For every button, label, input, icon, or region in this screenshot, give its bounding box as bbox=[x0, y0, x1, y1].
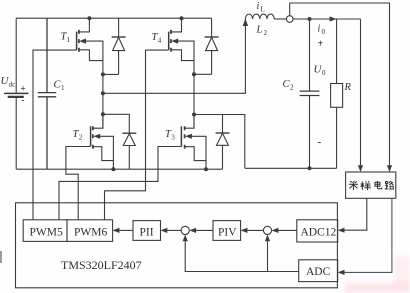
wire ADC12 to circle2 bbox=[278, 229, 297, 231]
svg-text:1: 1 bbox=[67, 36, 71, 44]
ADC box bbox=[299, 260, 338, 282]
wire L2 to sensor bbox=[274, 18, 286, 20]
scan artifact left edge bbox=[0, 251, 2, 263]
node dot B (T4/T3 midpoint) bbox=[192, 72, 196, 76]
svg-text:PWM6: PWM6 bbox=[74, 227, 107, 239]
wire right leg midline bbox=[193, 74, 195, 128]
wire ADC feedback to summing circles bbox=[185, 241, 299, 272]
wire PIV to circle1 bbox=[196, 229, 213, 231]
wire T4 gate to PWM6 bbox=[105, 50, 169, 220]
svg-text:PIV: PIV bbox=[218, 227, 237, 239]
resistor R bbox=[331, 19, 343, 168]
node dot T4 drain bbox=[180, 16, 184, 20]
wire sampling to ADC12 bbox=[344, 198, 367, 230]
node dot to L2 branch bbox=[101, 91, 105, 95]
wire T1 gate to PWM5 bbox=[33, 50, 77, 220]
node dot T2 source bbox=[111, 167, 115, 171]
node dot C2 bottom bbox=[308, 166, 312, 170]
summing junction circle 1 bbox=[181, 226, 189, 234]
svg-text:0: 0 bbox=[322, 69, 326, 77]
node dot output top bbox=[308, 17, 312, 21]
svg-text:L: L bbox=[256, 25, 263, 36]
node dot to output return bbox=[192, 113, 196, 117]
wire bottom rail bbox=[16, 168, 222, 170]
transistor T4 bbox=[169, 18, 194, 74]
diode D2 bbox=[122, 133, 136, 169]
summing junction circle 2 bbox=[263, 226, 271, 234]
T3 body arrowhead bbox=[185, 134, 192, 139]
node dot to D2 branch bbox=[101, 112, 105, 116]
svg-text:i: i bbox=[318, 24, 321, 35]
wire sampling to ADC bbox=[344, 198, 392, 272]
svg-text:R: R bbox=[344, 82, 352, 93]
i_L direction arrowhead bbox=[243, 19, 248, 26]
capacitor C1 bbox=[38, 18, 56, 169]
wire bridge midpoint A to inductor bbox=[103, 19, 246, 93]
wire circle1 to PII bbox=[167, 229, 181, 231]
svg-text:dc: dc bbox=[9, 81, 16, 89]
node dot A (T1/T2 midpoint) bbox=[101, 72, 105, 76]
svg-text:3: 3 bbox=[171, 134, 175, 142]
diode D3 bbox=[216, 133, 230, 169]
node dot T1 drain bbox=[87, 16, 91, 20]
PWM5 box bbox=[23, 220, 67, 242]
pink watermark remnant bottom-right bbox=[345, 283, 410, 293]
svg-text:ADC12: ADC12 bbox=[301, 227, 337, 239]
diode D4 bbox=[205, 18, 219, 74]
current sensor circle bbox=[286, 16, 293, 23]
transistor T2 bbox=[91, 114, 114, 169]
T4 body arrowhead bbox=[171, 39, 178, 44]
svg-text:+: + bbox=[21, 84, 26, 94]
wire output top bbox=[293, 18, 361, 20]
diode D1 bbox=[112, 18, 126, 74]
PIV box bbox=[213, 221, 241, 241]
label sampling circuit 采样电路 (drawn strokes) bbox=[349, 181, 394, 190]
i_0 arrowhead bbox=[330, 16, 337, 21]
svg-text:L: L bbox=[261, 6, 265, 14]
wire D2 branch bbox=[103, 114, 129, 133]
arrowhead into sampling box (current) bbox=[387, 165, 392, 172]
Udc source branch wire bbox=[15, 18, 17, 169]
T2 body arrowhead bbox=[93, 134, 100, 139]
svg-text:0: 0 bbox=[322, 28, 326, 36]
svg-text:PII: PII bbox=[140, 227, 154, 239]
svg-text:-: - bbox=[22, 95, 25, 105]
wire D3 branch bbox=[194, 115, 223, 134]
svg-text:ADC: ADC bbox=[306, 266, 331, 278]
svg-text:2: 2 bbox=[290, 84, 294, 92]
wire top rail bbox=[16, 17, 211, 19]
node dot T3 source bbox=[204, 167, 208, 171]
svg-text:4: 4 bbox=[158, 37, 162, 45]
svg-text:-: - bbox=[318, 136, 322, 148]
svg-text:+: + bbox=[318, 39, 324, 50]
svg-text:TMS320LF2407: TMS320LF2407 bbox=[61, 258, 142, 272]
battery U_dc plates bbox=[4, 92, 29, 94]
wire circle2 to PIV bbox=[247, 229, 263, 231]
svg-text:PWM5: PWM5 bbox=[30, 227, 63, 239]
wire node A to D1 bbox=[103, 73, 119, 75]
transistor T1 bbox=[77, 18, 103, 74]
DSP TMS320LF2407 box bbox=[16, 203, 338, 288]
PII box bbox=[133, 221, 161, 241]
sampling circuit box bbox=[346, 172, 396, 198]
wire T3 gate to PWM5 bbox=[59, 147, 181, 220]
capacitor C2 bbox=[300, 19, 320, 168]
T1 body arrowhead bbox=[79, 39, 86, 44]
PWM6 box bbox=[67, 220, 113, 242]
svg-text:2: 2 bbox=[79, 134, 83, 142]
svg-text:1: 1 bbox=[61, 84, 65, 92]
wire node B to D4 bbox=[194, 73, 212, 75]
wire left leg midline bbox=[102, 74, 104, 128]
transistor T3 bbox=[181, 115, 206, 170]
wire riser into circle2 bbox=[267, 241, 269, 272]
inductor L2 bbox=[245, 14, 274, 19]
arrowhead into sampling box (voltage) bbox=[358, 165, 363, 172]
ADC12 box bbox=[297, 220, 338, 242]
svg-text:2: 2 bbox=[264, 29, 268, 37]
wire node B to output return bbox=[194, 115, 245, 169]
wire output bottom rail bbox=[245, 167, 337, 169]
wire voltage sense bbox=[360, 19, 362, 166]
wire PII to PWM6 bbox=[119, 229, 133, 231]
wire T2 gate to PWM6 bbox=[66, 147, 91, 220]
wire current sense bbox=[290, 3, 390, 166]
svg-text:i: i bbox=[257, 1, 260, 12]
